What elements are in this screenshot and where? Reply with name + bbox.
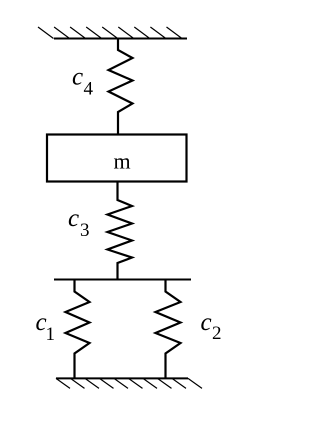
svg-text:2: 2 [212,323,222,344]
svg-text:m: m [114,149,131,174]
svg-text:1: 1 [46,324,56,345]
spring c4 [109,39,133,136]
spring c2 [156,280,181,380]
bar (rigid link) [54,279,191,281]
spring c1 [66,280,90,380]
svg-text:3: 3 [80,220,90,241]
floor (fixed support) [56,378,202,388]
svg-text:c: c [201,309,212,336]
ceiling (fixed support) [38,27,187,39]
svg-text:4: 4 [84,79,94,100]
spring c3 [108,182,133,281]
svg-text:c: c [72,64,83,91]
mass m box [47,135,187,182]
svg-text:c: c [68,205,79,232]
